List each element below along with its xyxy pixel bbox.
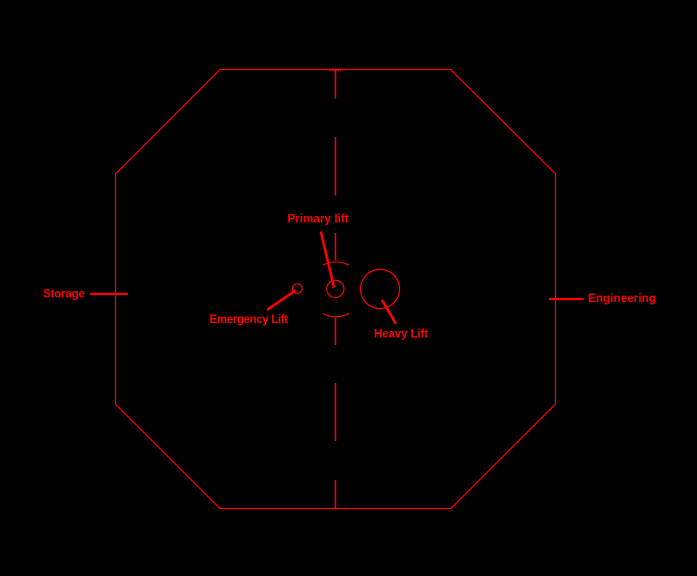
emergency lift leader [267, 290, 296, 309]
centerline dashed meridian [335, 70, 337, 509]
svg-text:Primary lift: Primary lift [288, 214, 349, 226]
storage door tick [90, 293, 128, 295]
stray pixel dot [117, 289, 118, 290]
deck outline octagon [116, 70, 556, 509]
svg-text:Storage: Storage [43, 289, 85, 301]
heavy lift circle [360, 269, 399, 308]
primary lift leader [321, 232, 334, 288]
heavy lift leader [382, 300, 396, 324]
primary lift shaft top arc [323, 262, 349, 265]
emergency lift circle [293, 284, 303, 294]
svg-text:Heavy Lift: Heavy Lift [374, 329, 428, 341]
primary lift shaft bottom arc [323, 314, 349, 317]
primary lift car circle [327, 280, 344, 297]
svg-text:Emergency Lift: Emergency Lift [210, 314, 289, 326]
svg-text:Engineering: Engineering [588, 293, 656, 305]
bow hatch ticks [330, 69, 340, 71]
engineering door tick [549, 298, 584, 300]
